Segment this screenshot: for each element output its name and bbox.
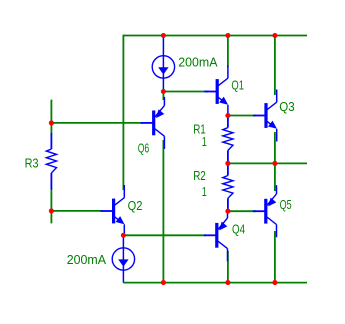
junction dot R1/R2 mid net	[225, 161, 230, 166]
transistor Q4 (PNP)	[204, 209, 245, 261]
wire Q5 collector down to bottom rail	[274, 231, 276, 283]
wire R3 node to Q6 base	[51, 122, 142, 124]
transistor Q5 (PNP)	[253, 185, 292, 237]
wire I1 output node down to Q6 emitter	[162, 92, 164, 101]
svg-text:Q5: Q5	[280, 197, 292, 212]
wire Q4 collector down to bottom rail	[227, 251, 229, 283]
wire top supply rail	[123, 35, 307, 37]
junction dot top rail / I1	[161, 33, 166, 38]
wire net I1-out / Q6 emitter / Q1 base	[163, 91, 208, 93]
junction dot R2 bottom / Q4 emitter / Q5 base	[225, 209, 230, 214]
svg-text:1: 1	[202, 184, 207, 199]
junction dot I1 out / Q6 emitter / Q1 base	[161, 89, 166, 94]
junction dot Q2 emitter / I2 / Q4 base	[121, 233, 126, 238]
svg-text:Q3: Q3	[279, 99, 294, 114]
wire Q3 emitter down to mid net	[274, 132, 276, 163]
current source I2 200mA	[67, 235, 135, 282]
svg-text:Q4: Q4	[232, 221, 245, 236]
junction dot R3 top / Q6 base	[49, 120, 54, 125]
wire R3 node to Q2 base	[51, 210, 102, 212]
wire R3 top lead (green part)	[50, 123, 52, 134]
svg-text:R2: R2	[193, 168, 206, 183]
junction dot bottom rail / Q4 collector	[225, 280, 230, 285]
junction dot R3 bottom / Q2 base	[49, 208, 54, 213]
wire mid net down to Q5 emitter	[274, 163, 276, 191]
junction dot top rail / Q1 collector	[225, 33, 230, 38]
wire stub below R3 node	[50, 211, 52, 224]
svg-text:1: 1	[202, 134, 207, 149]
resistor R2	[193, 163, 233, 211]
transistor Q3 (NPN)	[253, 90, 295, 142]
wire left rail from top corner down to Q2 collector	[122, 35, 124, 190]
wire Q3 collector from top rail	[274, 36, 276, 96]
svg-text:Q2: Q2	[128, 198, 143, 213]
junction dot mid net / Q3 emitter / Q5 emitter	[272, 161, 277, 166]
wire node B to Q5 base	[228, 210, 256, 212]
junction dot bottom rail / Q6 collector	[161, 280, 166, 285]
svg-text:Q1: Q1	[231, 78, 244, 93]
transistor Q6 (PNP)	[138, 97, 165, 155]
junction dot top rail / Q3 collector	[272, 33, 277, 38]
resistor R3	[25, 133, 57, 190]
transistor Q2 (NPN)	[101, 185, 143, 237]
svg-text:200mA: 200mA	[178, 55, 217, 70]
wire node A to Q3 base	[228, 115, 256, 117]
resistor R1	[193, 116, 233, 164]
svg-text:Q6: Q6	[138, 140, 150, 155]
wire stub above R3	[50, 100, 52, 123]
wire Q1 collector to top rail	[227, 36, 229, 68]
wire Q2 emitter node to Q4 base	[123, 234, 206, 236]
wire mid output net R1/R2 junction to right edge	[228, 162, 307, 164]
junction dot bottom rail / Q5 collector	[272, 280, 277, 285]
wire bottom rail	[123, 282, 307, 284]
wire Q6 collector down to bottom rail	[162, 140, 164, 283]
transistor Q1 (NPN)	[204, 66, 244, 118]
svg-text:200mA: 200mA	[67, 252, 106, 267]
junction dot Q1 emitter / R1 / Q3 base	[225, 113, 230, 118]
wire R3 bottom lead (green part)	[50, 189, 52, 211]
svg-text:R3: R3	[25, 155, 39, 170]
current source I1 200mA	[152, 36, 217, 92]
